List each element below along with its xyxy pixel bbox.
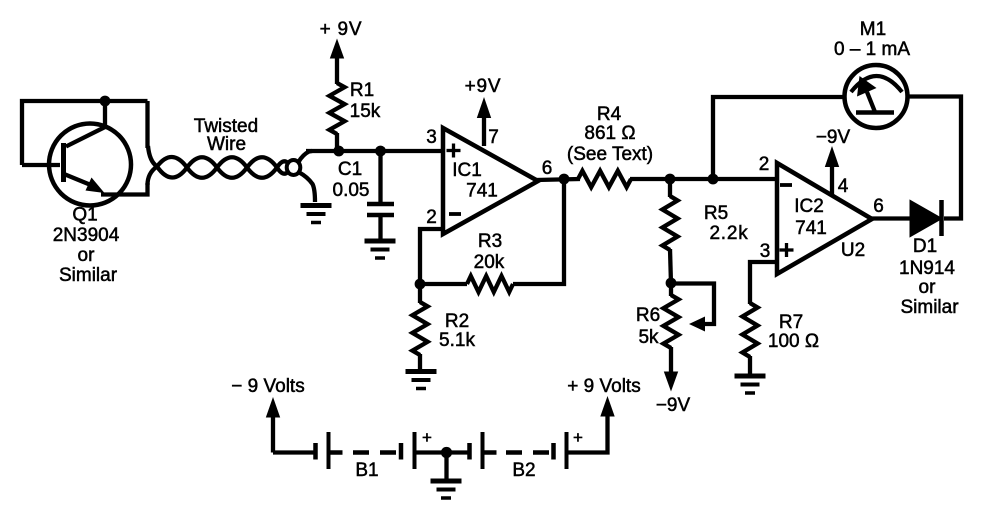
ground (R7) (735, 376, 766, 393)
svg-text:R4: R4 (597, 104, 622, 125)
power -9 Volts arrow (231, 376, 304, 453)
meter M1 needle (857, 76, 877, 112)
wire R2 top (418, 284, 422, 303)
svg-text:3: 3 (760, 241, 771, 262)
wire Q1 base lead (22, 163, 60, 167)
svg-text:R5: R5 (704, 203, 728, 224)
label R7 (779, 312, 803, 333)
label 2.2k (709, 223, 748, 244)
svg-text:or: or (919, 277, 937, 298)
svg-text:B2: B2 (512, 460, 535, 481)
node Q1 base-collector junction (100, 96, 111, 107)
node R5-R6 junction (666, 278, 677, 289)
label 741 (IC2) (795, 218, 827, 239)
meter M1 scale arc (851, 76, 902, 92)
label see text (567, 144, 653, 165)
svg-text:Q1: Q1 (72, 205, 97, 226)
label or (78, 245, 96, 266)
label Similar (59, 265, 118, 286)
svg-text:0.05: 0.05 (333, 180, 370, 201)
label R4 (597, 104, 622, 125)
capacitor C1 plates (367, 204, 394, 215)
svg-text:U2: U2 (841, 240, 865, 261)
svg-text:R2: R2 (445, 311, 469, 332)
wire R5 top (668, 179, 672, 197)
label B1 plus (422, 428, 432, 447)
wire R6 bottom (669, 347, 673, 373)
node R5 top junction (665, 174, 676, 185)
node R1 junction (333, 146, 344, 157)
meter M1 base line (856, 110, 894, 115)
svg-text:7: 7 (488, 127, 499, 148)
svg-text:−9V: −9V (656, 395, 691, 416)
svg-text:1N914: 1N914 (899, 258, 955, 279)
ground (R2) (406, 372, 437, 389)
wire Q1 emitter to twisted pair (101, 183, 148, 195)
wire Q1 collector riser (66, 101, 105, 147)
svg-text:D1: D1 (913, 236, 937, 257)
transistor Q1 base bar (61, 143, 66, 182)
svg-text:Similar: Similar (900, 297, 959, 318)
svg-text:IC2: IC2 (794, 196, 824, 217)
svg-text:0 – 1 mA: 0 – 1 mA (834, 39, 910, 60)
op-amp IC1 plus input mark (447, 144, 461, 158)
label Twisted (194, 116, 258, 137)
pin 3 label (IC1) (426, 127, 437, 148)
svg-text:− 9 Volts: − 9 Volts (231, 376, 304, 397)
node C1 junction (375, 146, 386, 157)
svg-text:R7: R7 (779, 312, 803, 333)
label R1 (350, 80, 374, 101)
R6 wiper loop (671, 284, 714, 332)
label 1N914 (899, 258, 955, 279)
svg-text:R6: R6 (636, 305, 660, 326)
label or (D1) (919, 277, 937, 298)
label C1 (338, 159, 362, 180)
svg-text:4: 4 (838, 176, 849, 197)
node feedback junction (708, 174, 719, 185)
power +9V (IC1 pin7) (465, 76, 502, 146)
wire IC1 output (536, 179, 580, 180)
label 20k (474, 252, 505, 273)
label 5.1k (439, 330, 475, 351)
label R6 (636, 305, 660, 326)
pin 6 label (IC1) (542, 158, 553, 179)
wire input net to IC1 pin3 (306, 149, 443, 153)
op-amp IC1 triangle (443, 128, 538, 234)
battery B2 (470, 432, 567, 469)
svg-text:C1: C1 (338, 159, 362, 180)
svg-text:5.1k: 5.1k (439, 330, 475, 351)
label IC2 (794, 196, 824, 217)
wire Q1 loop top (22, 101, 148, 165)
svg-text:6: 6 (542, 158, 553, 179)
svg-text:100 Ω: 100 Ω (768, 331, 819, 352)
label R3 (478, 231, 502, 252)
label U2 (841, 240, 865, 261)
wire C1 bottom (378, 217, 382, 240)
op-amp IC2 triangle (777, 163, 872, 274)
pin 3 label (IC2) (760, 241, 771, 262)
wire R3 to output node (513, 179, 564, 284)
wire R7 bottom stem (748, 356, 752, 375)
svg-text:3: 3 (426, 127, 437, 148)
svg-text:B1: B1 (355, 460, 378, 481)
svg-text:M1: M1 (860, 19, 886, 40)
wire IC1 pin2 (420, 229, 443, 284)
svg-text:+: + (573, 428, 583, 447)
wire IC2 output to D1 (870, 216, 911, 220)
svg-text:Wire: Wire (207, 134, 246, 155)
diode D1 (911, 200, 942, 236)
wire R4 to IC2 pin2 (630, 177, 777, 181)
node battery center (441, 447, 452, 458)
label 0.05 (333, 180, 370, 201)
label B2 (512, 460, 535, 481)
wire meter to D1 cathode (908, 97, 962, 219)
label 741 (IC1) (466, 181, 498, 202)
wire B1 to center (416, 450, 446, 454)
wire to B1 (273, 450, 314, 454)
resistor R4 (578, 171, 631, 187)
resistor R7 (742, 303, 757, 357)
op-amp IC1 minus input mark (449, 212, 461, 216)
node IC1 output junction (559, 174, 570, 185)
svg-text:2.2k: 2.2k (709, 223, 748, 244)
power -9V (R6) (656, 372, 691, 417)
wire B2 to +9V (568, 415, 608, 453)
twisted wire end loop (287, 160, 301, 175)
svg-text:+ 9V: + 9V (320, 19, 363, 40)
svg-text:Similar: Similar (59, 265, 118, 286)
pin 2 label (IC2) (759, 154, 770, 175)
svg-text:741: 741 (466, 181, 498, 202)
label 2N3904 (53, 225, 120, 246)
svg-text:(See Text): (See Text) (567, 144, 653, 165)
power +9 Volts arrow (567, 376, 640, 417)
twisted wire upper exit (299, 151, 313, 162)
svg-text:IC1: IC1 (452, 160, 482, 181)
resistor R1 (329, 83, 344, 134)
wire R6 top (669, 283, 673, 296)
pin 7 label (IC1) (488, 127, 499, 148)
twisted wire lower exit (299, 172, 316, 202)
label 861 ohm (584, 123, 635, 144)
wire Q1 right side down (145, 101, 149, 148)
wire R1 to node (335, 133, 339, 151)
label 5k (638, 327, 659, 348)
svg-text:R1: R1 (350, 80, 374, 101)
svg-text:+: + (422, 428, 432, 447)
twisted wire strand B (148, 157, 289, 185)
node R2-R3 junction (415, 279, 426, 290)
pin 2 label (IC1) (426, 207, 437, 228)
svg-text:+ 9 Volts: + 9 Volts (567, 376, 640, 397)
label 0-1 mA (834, 39, 910, 60)
label Q1 (72, 205, 97, 226)
svg-text:741: 741 (795, 218, 827, 239)
svg-text:6: 6 (873, 196, 884, 217)
wire feedback up (713, 97, 844, 179)
label R2 (445, 311, 469, 332)
meter M1 body (845, 65, 908, 128)
label IC1 (452, 160, 482, 181)
op-amp IC2 plus input mark (780, 243, 794, 257)
pin 4 label (IC2) (838, 176, 849, 197)
op-amp IC2 minus input mark (780, 183, 792, 187)
label 15k (350, 101, 381, 122)
svg-text:−9V: −9V (816, 127, 851, 148)
wire C1 top (378, 151, 382, 202)
label 100 ohm (768, 331, 819, 352)
svg-text:or: or (78, 245, 96, 266)
resistor R6 (663, 295, 678, 348)
resistor R2 (412, 302, 427, 355)
ground (battery center) (431, 453, 462, 499)
svg-text:861 Ω: 861 Ω (584, 123, 635, 144)
label M1 (860, 19, 886, 40)
label Wire (207, 134, 246, 155)
svg-text:20k: 20k (474, 252, 505, 273)
resistor R3 (467, 276, 513, 292)
label B1 (355, 460, 378, 481)
svg-text:+9V: +9V (465, 76, 502, 97)
power -9V (IC2 pin4) (816, 127, 851, 195)
wire R2 bottom stem (418, 354, 422, 371)
svg-text:R3: R3 (478, 231, 502, 252)
transistor Q1 emitter with arrow (64, 174, 105, 193)
svg-text:2N3904: 2N3904 (53, 225, 120, 246)
svg-text:5k: 5k (638, 327, 659, 348)
wire center to B2 (447, 450, 468, 454)
svg-text:15k: 15k (350, 101, 381, 122)
twisted wire strand A (148, 146, 288, 178)
svg-text:2: 2 (759, 154, 770, 175)
ground (C1) (365, 241, 396, 258)
wire IC2 pin3 (750, 262, 777, 304)
label D1 (913, 236, 937, 257)
label R5 (704, 203, 728, 224)
power +9V (R1) (320, 19, 363, 84)
svg-text:2: 2 (426, 207, 437, 228)
resistor R5 (662, 196, 677, 250)
transistor Q1 body circle (49, 124, 131, 206)
wire to R3 (420, 282, 467, 286)
ground (twisted pair shield) (301, 206, 332, 223)
battery B1 (316, 432, 415, 469)
wire R5 bottom (670, 249, 671, 284)
label Similar (D1) (900, 297, 959, 318)
label B2 plus (573, 428, 583, 447)
pin 6 label (IC2) (873, 196, 884, 217)
